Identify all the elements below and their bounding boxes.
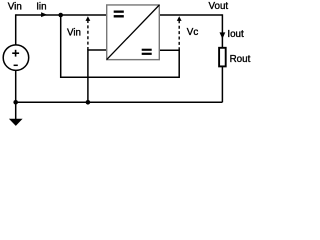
junction dot at converter return / ground rail <box>86 100 91 105</box>
Iout current arrow <box>220 32 226 39</box>
svg-text:Rout: Rout <box>230 54 251 65</box>
svg-text:Iin: Iin <box>36 1 46 12</box>
Vc dashed measurement arrow <box>177 16 182 50</box>
converter U1 diagonal <box>107 5 160 60</box>
wire left vertical from Vin corner to source <box>15 14 17 45</box>
wire loop: top rail junction down, across, up to converter bottom-right pin <box>61 15 180 77</box>
converter U1 box <box>107 5 160 60</box>
wire Vout vertical into Rout <box>221 14 223 47</box>
ground <box>9 119 23 126</box>
converter U1 upper DC symbol (=) <box>114 11 124 18</box>
wire Rout bottom to ground rail <box>221 67 223 103</box>
svg-text:Vc: Vc <box>187 27 199 38</box>
voltage source V1 circle <box>3 45 29 71</box>
voltage source plus sign <box>12 50 19 57</box>
resistor Rout <box>219 48 226 67</box>
svg-text:Iout: Iout <box>227 29 244 40</box>
Iin current arrow <box>41 12 47 17</box>
svg-text:Vin: Vin <box>67 27 81 38</box>
svg-text:Vout: Vout <box>209 1 229 12</box>
svg-text:Vin: Vin <box>8 1 22 12</box>
Vin dashed measurement arrow <box>86 16 91 50</box>
junction dot at top rail / loop wire <box>58 13 63 18</box>
wire bottom ground rail <box>16 101 223 103</box>
wire converter bottom-left pin to ground rail <box>88 50 107 102</box>
voltage source minus sign <box>14 64 18 66</box>
converter U1 lower DC symbol (=) <box>142 49 152 55</box>
wire source bottom to ground rail <box>15 70 17 119</box>
junction dot at source / ground rail <box>13 100 18 105</box>
wire top rail right (converter to Vout corner) <box>159 14 222 16</box>
wire top rail left (Vin+ to converter) <box>16 14 107 16</box>
